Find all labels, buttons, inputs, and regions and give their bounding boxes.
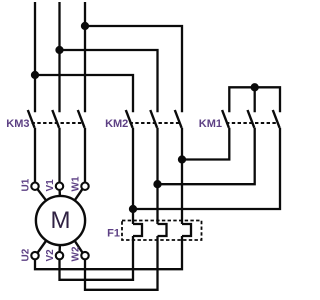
motor terminal V2 bbox=[56, 245, 63, 259]
wire L3 to KM2 pole 3 bbox=[85, 26, 182, 112]
node star bridge junction bbox=[252, 84, 258, 90]
svg-text:KM2: KM2 bbox=[105, 118, 128, 130]
node L3 branch junction bbox=[82, 23, 88, 29]
motor terminal V1 bbox=[56, 183, 63, 196]
wire KM2 pole 1 to KM1 pole 3 bbox=[133, 128, 280, 209]
node L1 branch junction bbox=[32, 72, 38, 78]
wire KM2 pole 2 to F1 element 2 bbox=[156, 128, 158, 224]
svg-text:V1: V1 bbox=[45, 179, 56, 192]
wire KM2 pole 2 to KM1 pole 2 bbox=[158, 128, 255, 184]
motor terminal U1 bbox=[31, 183, 46, 201]
wire L2 to KM2 pole 2 bbox=[60, 50, 158, 112]
svg-text:V2: V2 bbox=[45, 249, 56, 262]
wire F1 element 2 to motor terminal W2 bbox=[85, 236, 158, 290]
svg-text:U2: U2 bbox=[21, 248, 32, 261]
overload relay F1 box bbox=[122, 221, 202, 241]
F1 heater element 3 bbox=[182, 224, 191, 236]
wire L1 to KM2 pole 1 bbox=[35, 75, 133, 112]
motor M body bbox=[36, 196, 85, 245]
motor terminal W1 bbox=[75, 183, 89, 201]
F1 heater element 2 bbox=[158, 224, 167, 236]
svg-text:W2: W2 bbox=[71, 246, 82, 261]
motor terminal U2 bbox=[31, 241, 46, 260]
wire KM2 pole 3 to KM1 pole 1 bbox=[182, 128, 229, 160]
F1 heater element 1 bbox=[133, 224, 142, 236]
wire F1 element 1 to motor terminal V2 bbox=[60, 236, 134, 280]
wire KM2 pole 1 to F1 element 1 bbox=[132, 128, 134, 224]
node KM2 pole 2 / KM1 pole 2 junction bbox=[155, 181, 161, 187]
wire KM2 pole 3 to F1 element 3 bbox=[181, 128, 183, 224]
motor terminal W2 bbox=[75, 241, 89, 260]
wire phase L3 bbox=[84, 2, 86, 112]
svg-text:KM3: KM3 bbox=[6, 118, 29, 130]
wire KM3 pole 3 to terminal W1 bbox=[84, 128, 86, 183]
wire F1 element 3 to motor terminal U2 bbox=[35, 236, 182, 269]
wire KM3 pole 2 to terminal V1 bbox=[58, 128, 60, 183]
node KM2 pole 3 / KM1 pole 1 junction bbox=[179, 157, 185, 163]
svg-text:M: M bbox=[51, 207, 71, 234]
wire KM1 star bridge bbox=[229, 87, 280, 112]
svg-text:KM1: KM1 bbox=[199, 118, 222, 130]
node L2 branch junction bbox=[57, 47, 63, 53]
wire KM3 pole 1 to terminal U1 bbox=[34, 128, 36, 183]
node KM2 pole 1 / KM1 pole 3 junction bbox=[130, 206, 136, 212]
contactor KM2 bbox=[126, 110, 182, 128]
wire phase L2 bbox=[58, 2, 60, 112]
svg-text:W1: W1 bbox=[71, 176, 82, 191]
wire phase L1 bbox=[34, 2, 36, 112]
contactor KM1 bbox=[222, 110, 280, 128]
contactor KM3 bbox=[28, 110, 85, 128]
svg-text:U1: U1 bbox=[21, 178, 32, 191]
svg-text:F1: F1 bbox=[107, 228, 120, 240]
